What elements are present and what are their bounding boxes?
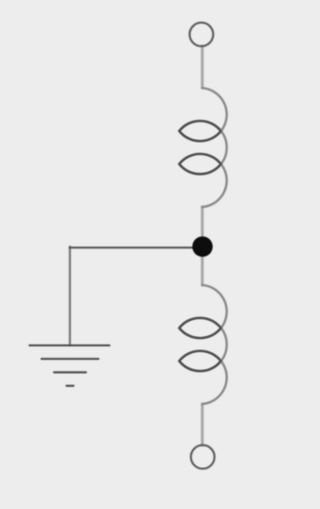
inductor L2 (lower coil)	[179, 285, 226, 404]
wire node A to L2	[201, 248, 204, 286]
terminals	[190, 23, 215, 469]
ground symbol	[30, 345, 110, 385]
ground bar 3	[54, 371, 86, 373]
terminal T2 (bottom open circle)	[191, 445, 215, 469]
ground branch vertical wire	[69, 247, 71, 345]
L2 lens 2 top arc	[179, 351, 221, 361]
L1 lens 2 bottom arc	[179, 164, 221, 174]
wire node A down to ground	[69, 247, 71, 345]
L1 lens 2 top arc	[179, 154, 221, 164]
terminal T1 (top open circle)	[190, 23, 214, 47]
wire T1 to L1	[201, 46, 204, 87]
ground bar 1	[30, 344, 110, 346]
L2 lens 2 bottom arc	[179, 361, 221, 371]
inductor L1 (upper coil)	[179, 88, 226, 207]
wire node A to ground branch (horizontal)	[70, 247, 202, 249]
ground bar 2	[42, 358, 99, 360]
horizontal dark wire	[70, 247, 202, 249]
wire L1 to node A	[201, 207, 204, 248]
coils (light base stroke)	[179, 88, 226, 404]
node A junction dot	[192, 236, 212, 256]
L1 lens 1 bottom arc	[179, 131, 221, 141]
ground bar 4	[67, 385, 74, 387]
coil lens arcs (darker near-horizontal parts)	[179, 121, 221, 371]
vertical light wires (main axis)	[201, 46, 204, 445]
L1 lens 1 top arc	[179, 121, 221, 131]
L2 lens 1 bottom arc	[179, 328, 221, 338]
wire L2 to T2	[201, 404, 204, 445]
L2 lens 1 top arc	[179, 318, 221, 328]
